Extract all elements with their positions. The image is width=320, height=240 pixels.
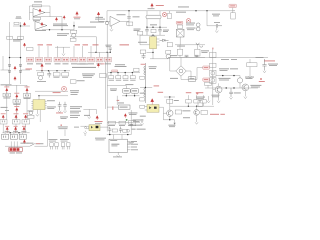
wire bbox=[163, 107, 174, 123]
label red dashes bbox=[117, 100, 120, 101]
label bbox=[77, 79, 85, 82]
resistor R43 bbox=[167, 99, 173, 103]
label bbox=[110, 89, 116, 92]
ground bbox=[110, 26, 113, 31]
label small bbox=[16, 16, 21, 19]
wire bbox=[42, 29, 70, 31]
label bbox=[137, 128, 146, 131]
test point TP12 bbox=[3, 87, 11, 99]
wire stubs bbox=[39, 46, 108, 57]
label bbox=[113, 156, 122, 159]
diode D2 bbox=[8, 71, 10, 73]
test point TP11 bbox=[151, 3, 154, 8]
resistor R29 bbox=[201, 110, 207, 114]
label col bbox=[84, 114, 90, 117]
net label red bbox=[75, 44, 81, 45]
node bbox=[18, 132, 19, 133]
resistor R27 bbox=[140, 105, 145, 108]
label bbox=[186, 24, 194, 27]
wire bbox=[140, 86, 152, 88]
label bbox=[1, 106, 8, 109]
node bbox=[222, 75, 223, 76]
node bbox=[126, 95, 127, 96]
label col bbox=[70, 114, 80, 117]
pin labels bbox=[131, 141, 138, 150]
op-amp U2 bbox=[110, 16, 120, 26]
label bbox=[110, 88, 117, 91]
label bbox=[83, 74, 94, 77]
wire bbox=[70, 22, 74, 31]
red tick2 bbox=[61, 124, 62, 126]
label red bbox=[56, 112, 63, 115]
resistor R40 bbox=[53, 73, 60, 76]
node bbox=[196, 106, 197, 107]
op-amp U1A bbox=[33, 9, 45, 17]
label small bbox=[128, 141, 134, 144]
wire left rail bbox=[2, 56, 4, 70]
transistor Q2 bbox=[215, 86, 222, 93]
test point TP20 bbox=[96, 116, 99, 120]
label bbox=[5, 109, 9, 112]
label red bottom bbox=[210, 114, 219, 115]
wire bbox=[207, 11, 216, 26]
label bbox=[35, 142, 43, 145]
label bbox=[95, 137, 106, 140]
node bbox=[61, 29, 62, 30]
node bbox=[233, 87, 234, 88]
label bbox=[170, 77, 178, 80]
varistor RV1 bbox=[210, 70, 216, 76]
label bbox=[70, 116, 78, 119]
wire bbox=[107, 106, 118, 108]
wire ladder bottom bbox=[10, 57, 21, 59]
wire bbox=[100, 126, 110, 128]
wire bbox=[1, 69, 31, 71]
label bbox=[256, 56, 264, 59]
label bbox=[108, 124, 115, 127]
wire bbox=[107, 134, 131, 136]
bridge fan B1 bbox=[176, 66, 186, 76]
transistor Q1 bbox=[237, 78, 242, 83]
capacitor C11 bbox=[229, 88, 233, 97]
test point TP1 bbox=[39, 9, 41, 14]
label bbox=[47, 107, 54, 110]
label bbox=[119, 124, 125, 127]
resistor R8 bbox=[137, 31, 143, 35]
wire bbox=[83, 109, 96, 114]
node bbox=[152, 35, 153, 36]
capacitor C15 bbox=[116, 73, 121, 81]
connector block J9 bbox=[96, 57, 103, 64]
label bbox=[47, 106, 56, 109]
label col bbox=[70, 89, 79, 92]
label bbox=[49, 140, 56, 143]
net label hot bbox=[203, 66, 210, 69]
label bbox=[212, 94, 220, 97]
connector block J4 bbox=[54, 57, 61, 64]
capacitor C17 bbox=[130, 73, 135, 81]
node bbox=[169, 96, 170, 97]
test point TP9 bbox=[76, 12, 79, 17]
resistor R4 bbox=[7, 36, 13, 39]
label bbox=[148, 7, 155, 10]
label bbox=[245, 76, 254, 79]
connector block J7 bbox=[79, 57, 86, 64]
label bbox=[37, 80, 46, 83]
label bbox=[115, 65, 127, 68]
winding W2 bbox=[144, 63, 146, 84]
node bbox=[109, 134, 110, 135]
resistor R38 bbox=[195, 49, 200, 56]
resistor R18 bbox=[198, 101, 202, 107]
capacitor C19 bbox=[108, 127, 111, 135]
label C1 value bbox=[34, 0, 42, 3]
wire bbox=[205, 87, 258, 89]
node bbox=[195, 10, 196, 11]
label bbox=[187, 27, 196, 30]
fuse holder FH2 bbox=[61, 143, 70, 150]
IC3 ground pin bbox=[117, 152, 120, 157]
label bbox=[182, 109, 190, 112]
capacitor C3 bbox=[127, 17, 131, 18]
node bbox=[169, 119, 170, 120]
wire drops bbox=[3, 124, 25, 133]
wire bbox=[120, 11, 129, 26]
wire bbox=[244, 91, 246, 97]
resistor R9 bbox=[167, 42, 172, 46]
label bbox=[174, 99, 179, 102]
node bbox=[110, 72, 111, 73]
label bbox=[61, 117, 67, 120]
label inside bbox=[189, 78, 194, 79]
ground bbox=[84, 131, 87, 136]
node bbox=[10, 132, 11, 133]
wire bbox=[36, 70, 70, 72]
label bbox=[138, 41, 147, 44]
ground bbox=[263, 71, 266, 73]
capacitor C2 bbox=[27, 48, 34, 51]
label block2 bbox=[58, 127, 67, 130]
resistor R2 bbox=[33, 17, 41, 19]
label red bbox=[154, 85, 160, 86]
label bbox=[135, 124, 142, 127]
relay K1 bbox=[123, 89, 131, 94]
label col bbox=[70, 105, 82, 108]
fuse holder FH1 bbox=[50, 143, 59, 150]
PWM IC2 bbox=[33, 100, 45, 110]
label bbox=[213, 15, 219, 18]
net label neutral bbox=[203, 78, 210, 81]
label red bbox=[186, 92, 192, 93]
test point TP3 bbox=[41, 22, 43, 26]
label bbox=[61, 140, 68, 143]
wire bbox=[107, 86, 126, 89]
test point TP17 bbox=[12, 113, 20, 124]
test point TP7 bbox=[14, 66, 16, 70]
filter box FL1 bbox=[2, 134, 9, 139]
thermistor circle bbox=[166, 54, 170, 58]
test point TP19 bbox=[97, 63, 99, 67]
test point TP22 bbox=[151, 99, 154, 105]
label bbox=[129, 113, 137, 116]
net label red bbox=[120, 44, 130, 45]
node bbox=[146, 27, 147, 28]
label col bbox=[70, 107, 80, 110]
label bbox=[149, 65, 157, 68]
test point TP10 bbox=[97, 12, 100, 16]
label bbox=[234, 92, 241, 95]
label bbox=[212, 13, 220, 16]
wire bbox=[122, 93, 139, 96]
resistor R6 bbox=[127, 22, 133, 25]
green dot bbox=[126, 119, 128, 121]
diode D5 bbox=[160, 39, 169, 42]
net label text bbox=[204, 78, 208, 81]
wire bbox=[170, 105, 214, 107]
wire stubs bbox=[5, 133, 23, 134]
wire bbox=[213, 83, 219, 100]
label bbox=[53, 76, 59, 79]
wire bbox=[212, 49, 214, 105]
label red bbox=[259, 81, 265, 82]
label bbox=[196, 96, 205, 99]
resistor R21 bbox=[99, 74, 106, 78]
bridge BD1 bbox=[176, 29, 184, 37]
connector block J10 bbox=[105, 57, 112, 64]
wire bbox=[168, 11, 170, 13]
label R2 value bbox=[33, 19, 40, 22]
label bbox=[105, 44, 111, 47]
label bbox=[96, 16, 104, 19]
label block bbox=[58, 126, 68, 129]
net label red small bbox=[112, 70, 118, 72]
wire bbox=[39, 110, 41, 122]
label bbox=[125, 83, 133, 86]
node bbox=[145, 87, 146, 88]
test point TP14 bbox=[23, 87, 31, 99]
ground bbox=[36, 110, 39, 117]
label small bbox=[16, 17, 22, 20]
wire bbox=[170, 57, 197, 79]
resistor R5 bbox=[18, 36, 24, 39]
net label text bbox=[204, 66, 208, 69]
wire bbox=[180, 57, 182, 65]
node bbox=[159, 27, 160, 28]
label red bbox=[95, 121, 103, 122]
IC3 top stubs bbox=[113, 135, 122, 140]
label bbox=[60, 138, 69, 141]
label bbox=[48, 138, 57, 141]
label red bbox=[264, 60, 275, 61]
test point TP18 bbox=[22, 113, 30, 124]
red dot bbox=[260, 78, 262, 80]
label bbox=[57, 32, 69, 35]
capacitor C8 bbox=[185, 55, 189, 57]
capacitor C5 bbox=[158, 27, 162, 35]
label inside bbox=[120, 107, 128, 108]
test point TP8 bbox=[14, 77, 16, 81]
label top bbox=[110, 139, 117, 142]
connector block J6 bbox=[71, 57, 78, 64]
label red net bbox=[26, 69, 33, 70]
transistor Q3 bbox=[242, 84, 249, 91]
label red bbox=[74, 16, 81, 19]
resistor R32 bbox=[201, 100, 207, 103]
filter box FL2 bbox=[10, 134, 17, 139]
label bbox=[268, 63, 278, 66]
red dot2 bbox=[196, 92, 198, 94]
wire bbox=[30, 13, 63, 30]
test point TP21 bbox=[124, 114, 126, 118]
resistor R1 bbox=[33, 5, 42, 7]
red flag TP27 bbox=[41, 64, 44, 71]
resistor R7 bbox=[151, 29, 156, 32]
node bbox=[64, 70, 65, 71]
wire bbox=[249, 59, 251, 76]
switch SW1 bbox=[30, 144, 35, 147]
node bbox=[73, 25, 75, 27]
wire bbox=[168, 56, 205, 58]
net label red bbox=[47, 44, 53, 45]
node bbox=[152, 27, 153, 28]
label bbox=[134, 29, 140, 32]
wire bbox=[116, 96, 118, 105]
red tick bbox=[212, 48, 213, 50]
wire bbox=[140, 34, 165, 36]
filter box FL3 bbox=[19, 134, 26, 139]
wire left rail bbox=[9, 22, 11, 84]
transistor Q4 bbox=[167, 110, 173, 116]
label col bbox=[70, 110, 81, 113]
node bbox=[107, 52, 108, 53]
label bbox=[133, 15, 140, 18]
ground arrow bbox=[88, 109, 91, 118]
capacitor C13 bbox=[63, 102, 67, 111]
node bbox=[110, 52, 111, 53]
thermal fuse F2 bbox=[188, 76, 196, 81]
net label VCC bbox=[229, 4, 236, 7]
label bbox=[1, 83, 12, 86]
label bbox=[220, 69, 228, 72]
optocoupler U4 bbox=[89, 125, 100, 131]
wire bbox=[13, 25, 30, 27]
label bbox=[118, 102, 124, 105]
winding W1 bbox=[144, 84, 146, 103]
resistor R41 bbox=[62, 73, 69, 76]
wire secondary rail bbox=[150, 57, 268, 58]
label bbox=[62, 76, 68, 79]
label bbox=[128, 112, 137, 115]
label bbox=[169, 125, 175, 128]
test point TP25 bbox=[21, 126, 26, 133]
wire bbox=[38, 96, 40, 100]
fuse block F1 bbox=[9, 148, 23, 152]
choke L1 bbox=[146, 15, 161, 19]
node bbox=[38, 95, 39, 96]
wire bbox=[147, 26, 167, 28]
resistor R30 bbox=[186, 100, 192, 103]
label bbox=[250, 84, 261, 87]
label bbox=[183, 116, 190, 119]
label tiny bottom bbox=[128, 143, 133, 146]
node bbox=[20, 57, 21, 58]
wire bottom row bbox=[107, 122, 140, 124]
label bbox=[47, 99, 55, 102]
node bbox=[233, 75, 234, 76]
resistor R26 bbox=[140, 98, 145, 101]
capacitor C7 bbox=[216, 24, 222, 28]
label bbox=[212, 95, 219, 98]
label col bbox=[70, 112, 79, 115]
label bbox=[60, 116, 68, 119]
diode D6 bbox=[123, 129, 130, 132]
resistor R28 bbox=[175, 110, 181, 114]
label bbox=[83, 76, 92, 79]
wire right rail bbox=[20, 22, 22, 84]
wire bbox=[164, 97, 175, 106]
probe mark red circle bbox=[162, 12, 166, 16]
connector block J2 bbox=[36, 57, 43, 64]
label bbox=[187, 28, 194, 31]
resistor R13 bbox=[231, 13, 235, 19]
wire stubs2 bbox=[188, 103, 203, 106]
net label live bbox=[176, 21, 183, 24]
net label red bbox=[83, 44, 89, 45]
node bbox=[127, 134, 128, 135]
TP box bars bbox=[2, 94, 29, 122]
label bbox=[74, 17, 80, 20]
IC1 pins bbox=[152, 35, 160, 45]
connector block J3 bbox=[45, 57, 52, 64]
probe mark red circle2 bbox=[186, 19, 191, 24]
label bbox=[176, 11, 186, 14]
resistor R37 bbox=[177, 49, 182, 55]
capacitor C9 bbox=[195, 55, 199, 57]
capacitor C10 bbox=[262, 59, 266, 71]
label bbox=[246, 77, 253, 80]
label bbox=[95, 122, 102, 125]
diode D4 bbox=[19, 71, 21, 73]
capacitor C4 bbox=[145, 27, 149, 35]
label bbox=[71, 93, 78, 96]
label bbox=[133, 119, 141, 122]
capacitor C20 bbox=[119, 127, 122, 133]
wire bbox=[179, 37, 181, 45]
wire bbox=[175, 44, 205, 46]
capacitor C22 bbox=[47, 71, 51, 78]
ground bbox=[140, 123, 143, 125]
resistor R3 bbox=[14, 22, 19, 24]
label bbox=[10, 152, 16, 155]
resistor R22 bbox=[70, 80, 76, 83]
label bbox=[231, 58, 237, 61]
wire stubs bbox=[180, 45, 197, 58]
label bbox=[269, 64, 277, 67]
label bbox=[13, 38, 22, 41]
probe mark red circle3 bbox=[62, 86, 67, 91]
label bbox=[74, 126, 79, 129]
label inside bbox=[132, 90, 137, 91]
label U1B bbox=[35, 29, 46, 32]
wire bbox=[48, 130, 65, 147]
label bbox=[16, 152, 22, 155]
capacitor C12 bbox=[58, 102, 62, 111]
test point TP2 bbox=[55, 17, 57, 21]
test point TP5 bbox=[23, 22, 25, 26]
node bbox=[49, 29, 50, 30]
wire bbox=[35, 91, 68, 96]
wire stubs bbox=[188, 95, 203, 99]
